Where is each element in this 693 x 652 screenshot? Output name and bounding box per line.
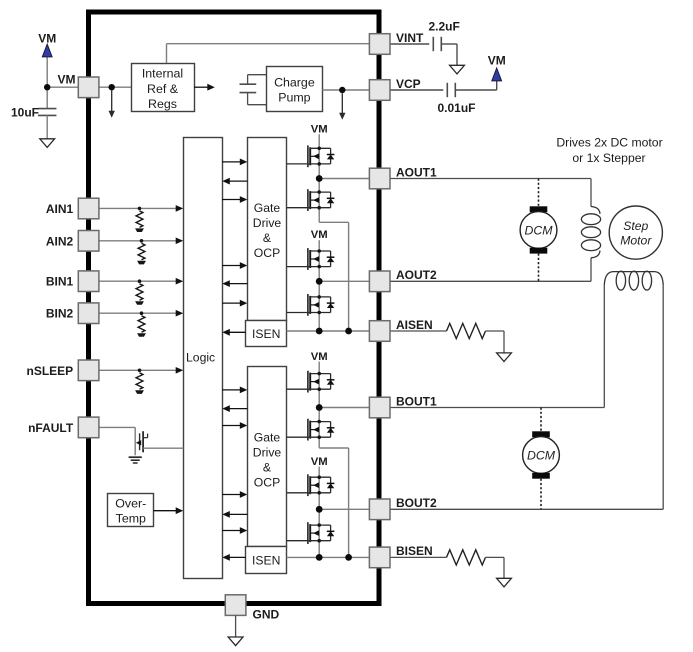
svg-text:Drive: Drive	[253, 216, 282, 230]
svg-text:VM: VM	[58, 72, 76, 86]
svg-text:Drives 2x DC motor: Drives 2x DC motor	[556, 135, 662, 149]
svg-text:2.2uF: 2.2uF	[429, 20, 460, 34]
svg-text:BISEN: BISEN	[396, 544, 433, 558]
svg-text:VINT: VINT	[396, 31, 424, 45]
svg-text:AOUT2: AOUT2	[396, 268, 437, 282]
svg-text:VM: VM	[38, 31, 56, 45]
svg-text:AOUT1: AOUT1	[396, 165, 437, 179]
svg-text:or 1x Stepper: or 1x Stepper	[572, 151, 645, 165]
svg-text:Pump: Pump	[278, 91, 310, 105]
svg-text:DCM: DCM	[524, 223, 553, 237]
svg-text:Logic: Logic	[186, 350, 215, 364]
svg-text:DCM: DCM	[527, 449, 556, 463]
svg-text:Temp: Temp	[116, 512, 146, 526]
svg-text:VM: VM	[488, 54, 506, 68]
svg-text:Charge: Charge	[274, 75, 315, 89]
svg-text:OCP: OCP	[254, 475, 280, 489]
svg-text:Gate: Gate	[254, 430, 281, 444]
svg-text:VM: VM	[311, 229, 328, 241]
svg-text:Regs: Regs	[148, 97, 177, 111]
svg-text:BIN2: BIN2	[46, 307, 74, 321]
svg-text:10uF: 10uF	[11, 105, 39, 119]
svg-text:0.01uF: 0.01uF	[438, 101, 476, 115]
svg-text:VM: VM	[311, 124, 328, 136]
svg-text:BOUT2: BOUT2	[396, 496, 437, 510]
svg-text:AISEN: AISEN	[396, 318, 433, 332]
svg-text:Motor: Motor	[620, 234, 652, 248]
svg-text:nSLEEP: nSLEEP	[27, 364, 74, 378]
svg-text:Internal: Internal	[142, 67, 183, 81]
svg-text:&: &	[263, 460, 271, 474]
svg-text:Ref &: Ref &	[147, 82, 179, 96]
svg-text:AIN1: AIN1	[46, 202, 74, 216]
svg-text:BIN1: BIN1	[46, 275, 74, 289]
svg-text:BOUT1: BOUT1	[396, 394, 437, 408]
svg-text:ISEN: ISEN	[252, 327, 280, 341]
svg-text:VM: VM	[311, 351, 328, 363]
svg-text:GND: GND	[253, 608, 280, 622]
svg-text:&: &	[263, 231, 271, 245]
svg-text:VM: VM	[311, 456, 328, 468]
svg-text:nFAULT: nFAULT	[28, 421, 74, 435]
svg-text:OCP: OCP	[254, 246, 280, 260]
svg-text:VCP: VCP	[396, 77, 421, 91]
svg-text:Drive: Drive	[253, 445, 282, 459]
svg-text:Over-: Over-	[115, 497, 146, 511]
svg-text:Step: Step	[623, 219, 648, 233]
svg-text:ISEN: ISEN	[252, 553, 280, 567]
svg-text:Gate: Gate	[254, 201, 281, 215]
svg-text:AIN2: AIN2	[46, 234, 74, 248]
